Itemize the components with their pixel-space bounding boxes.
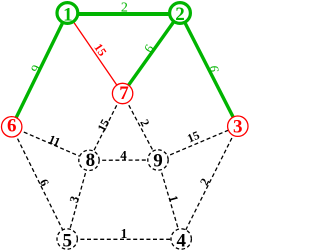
wire edge 7-8 (dashed, weight 15)	[89, 94, 123, 161]
svg-text:3: 3	[233, 117, 243, 138]
wire edge 3-4 (dashed, weight 2)	[181, 126, 238, 239]
svg-text:9: 9	[207, 65, 221, 72]
node 7 (red circle)	[112, 83, 132, 103]
svg-text:9: 9	[153, 151, 163, 172]
wire edge 2-3 (green tree edge, weight 9)	[180, 13, 238, 126]
wire edge 8-9 (dashed, weight 4)	[89, 159, 158, 161]
wire edge 9-4 (dashed, weight 1)	[158, 160, 181, 239]
node 3 (red circle)	[228, 116, 248, 136]
svg-text:4: 4	[120, 148, 127, 163]
svg-text:2: 2	[175, 4, 185, 25]
node 6 (red circle)	[2, 117, 22, 137]
svg-text:8: 8	[86, 150, 96, 171]
node 4 (dashed circle)	[171, 229, 191, 249]
wire edge 6-5 (dashed, weight 6)	[12, 127, 67, 239]
wire edge 5-4 (dashed, weight 1)	[67, 238, 181, 240]
svg-text:1: 1	[63, 5, 73, 26]
svg-text:1: 1	[121, 226, 128, 241]
wire edge 8-5 (dashed, weight 3)	[67, 160, 89, 239]
wire edge 6-8 (dashed, weight 11)	[12, 127, 89, 161]
wire edge 2-7 (green tree edge, weight 6)	[123, 13, 180, 94]
wire edge 1-7 (red edge, weight 15)	[67, 13, 122, 94]
node 2 (green circle)	[170, 3, 191, 24]
wire edge 1-2 (green tree edge, weight 2)	[67, 12, 180, 16]
svg-text:7: 7	[119, 83, 129, 104]
svg-text:4: 4	[176, 230, 186, 251]
wire edge 1-6 (green tree edge, weight 9)	[12, 13, 68, 127]
svg-text:5: 5	[62, 231, 72, 252]
svg-text:6: 6	[7, 115, 17, 136]
node 8 (dashed circle)	[79, 150, 99, 170]
svg-text:2: 2	[121, 0, 128, 15]
wire edge 7-9 (dashed, weight 2)	[123, 94, 158, 161]
node 5 (dashed circle)	[57, 229, 77, 249]
wire edge 9-3 (dashed, weight 15)	[158, 126, 238, 160]
node 1 (green circle)	[57, 3, 78, 24]
node 9 (dashed circle)	[148, 150, 168, 170]
